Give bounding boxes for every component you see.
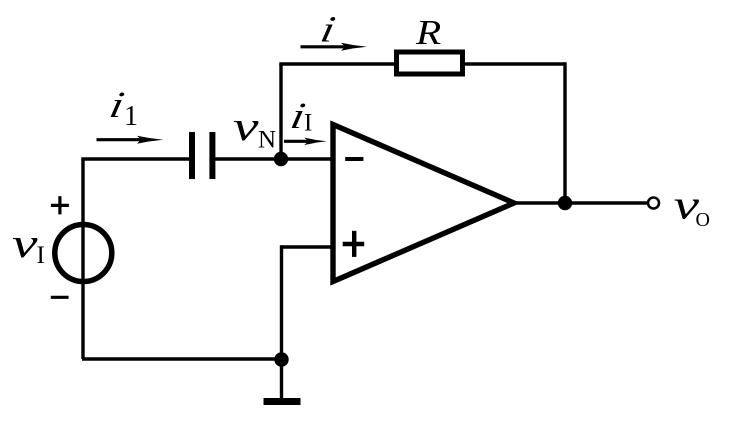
node vN junction dot <box>274 152 288 166</box>
current arrow iI <box>284 140 309 143</box>
op-amp non-inverting input plus sign <box>343 242 365 246</box>
wire: top feedback horizontal <box>279 62 565 65</box>
source plus polarity mark <box>51 204 69 207</box>
svg-text:v: v <box>12 221 38 266</box>
svg-text:N: N <box>258 127 276 154</box>
svg-text:O: O <box>696 209 710 231</box>
current arrow i1 <box>97 138 143 141</box>
wire: non-inverting input horizontal <box>282 245 335 248</box>
ground junction dot <box>274 352 288 366</box>
current arrow i (feedback) <box>301 45 347 48</box>
wire: capacitor to op-amp inverting input <box>214 157 334 160</box>
wire: vertical from non-inverting input down to ground <box>280 245 283 398</box>
wire: output horizontal <box>511 201 648 204</box>
output open terminal circle <box>648 198 659 209</box>
svg-text:I: I <box>37 242 45 269</box>
capacitor C plates <box>189 132 195 179</box>
voltage source VI circle <box>55 225 112 282</box>
svg-text:R: R <box>415 14 441 52</box>
svg-text:I: I <box>304 110 312 137</box>
svg-text:v: v <box>233 104 259 149</box>
op-amp U1 triangle <box>333 125 514 282</box>
source minus polarity mark <box>51 296 69 299</box>
op-amp inverting input minus sign <box>345 157 363 161</box>
output node junction dot <box>558 196 572 210</box>
ground symbol bar <box>264 398 301 405</box>
wire: left vertical through source <box>81 159 84 359</box>
svg-text:1: 1 <box>124 101 138 132</box>
resistor R <box>397 52 463 74</box>
wire: bottom horizontal from source to ground junction <box>82 357 282 360</box>
wire: right vertical from feedback down to output <box>563 62 566 203</box>
wire: input horizontal left of capacitor <box>81 157 192 160</box>
wire: vertical from node vN up to feedback <box>279 64 282 159</box>
